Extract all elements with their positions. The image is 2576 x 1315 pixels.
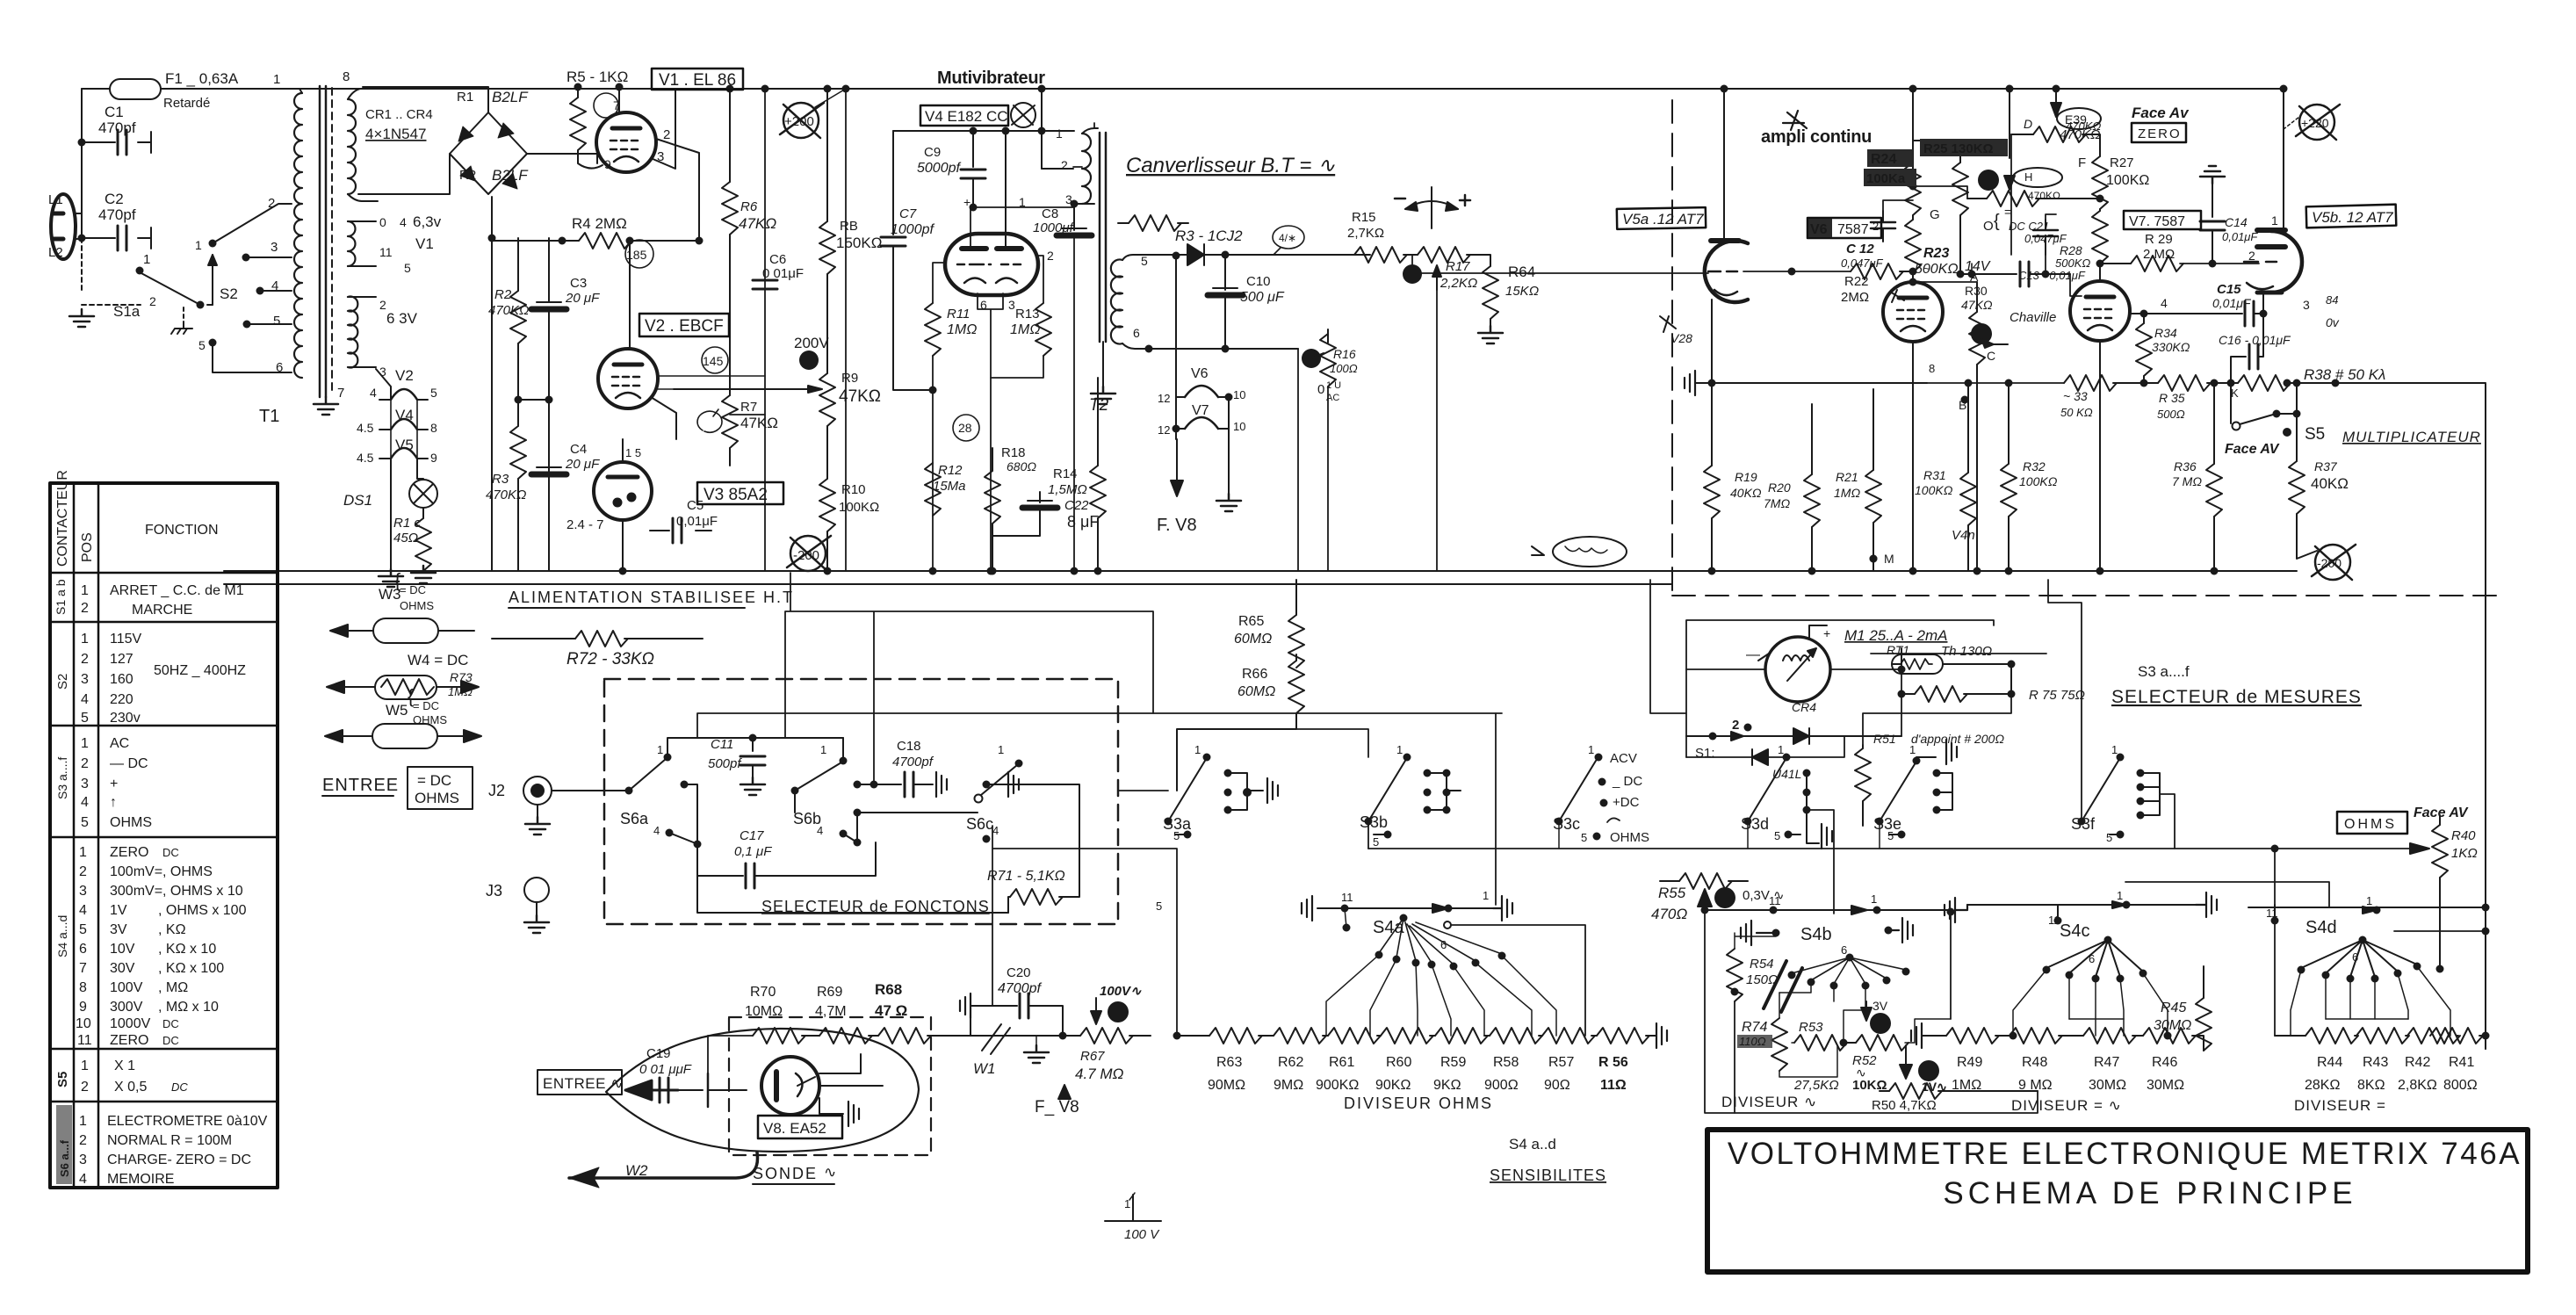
resistor R18 680 xyxy=(992,448,993,471)
svg-text:4: 4 xyxy=(370,386,377,400)
svg-text:15Ma: 15Ma xyxy=(933,479,966,494)
switch S1 contacts xyxy=(1744,724,1752,732)
svg-text:W2: W2 xyxy=(625,1162,648,1179)
svg-text:SENSIBILITES: SENSIBILITES xyxy=(1490,1167,1606,1184)
svg-text:R68: R68 xyxy=(875,981,902,998)
dashed box SELECTEUR de FONCTONS xyxy=(604,679,1118,924)
svg-text:ZERO: ZERO xyxy=(2138,126,2182,141)
svg-text:4: 4 xyxy=(81,692,89,707)
long wire top of selectors xyxy=(697,713,1502,738)
svg-text:1: 1 xyxy=(1124,1197,1130,1210)
svg-text:1KΩ: 1KΩ xyxy=(2451,846,2478,861)
svg-text:10MΩ: 10MΩ xyxy=(745,1004,783,1019)
svg-text:1: 1 xyxy=(2271,213,2278,228)
resistor R3 470K xyxy=(517,400,519,426)
svg-text:40KΩ: 40KΩ xyxy=(1730,486,1762,500)
svg-text:T1: T1 xyxy=(259,407,279,426)
svg-text:S3c: S3c xyxy=(1553,815,1580,833)
meter label M1 xyxy=(1871,653,2046,654)
svg-text:OHMS: OHMS xyxy=(110,815,152,830)
svg-text:MARCHE: MARCHE xyxy=(132,603,192,618)
ENTREE underline xyxy=(322,795,393,797)
svg-text:1000μf: 1000μf xyxy=(1033,220,1075,235)
ground under wire xyxy=(1035,1036,1037,1045)
svg-text:5: 5 xyxy=(404,261,411,275)
svg-text:R21: R21 xyxy=(1836,470,1858,484)
transformer T1 core xyxy=(320,86,326,397)
svg-text:1MΩ: 1MΩ xyxy=(947,322,977,337)
svg-text:V6: V6 xyxy=(1810,222,1828,237)
svg-text:0 01 μμF: 0 01 μμF xyxy=(639,1062,692,1077)
svg-text:3: 3 xyxy=(1008,298,1015,312)
svg-text:R63: R63 xyxy=(1216,1055,1242,1070)
box = DC OHMS xyxy=(408,767,473,809)
svg-text:FONCTION: FONCTION xyxy=(145,523,219,538)
svg-text:V2 . EBCF: V2 . EBCF xyxy=(645,317,724,336)
resistor R32 100K xyxy=(2008,383,2010,464)
svg-text:—: — xyxy=(1746,647,1760,662)
svg-text:R 56: R 56 xyxy=(1598,1055,1628,1070)
svg-text:=: = xyxy=(2004,205,2011,219)
resistor R24 (vertical) xyxy=(1912,141,1914,163)
svg-text:R4 2MΩ: R4 2MΩ xyxy=(572,215,627,232)
svg-text:R70: R70 xyxy=(750,985,776,1000)
svg-text:3: 3 xyxy=(2303,298,2310,312)
svg-text:R14: R14 xyxy=(1053,466,1078,481)
probe cathode ground xyxy=(819,1098,843,1114)
tube V5b 12AT7 (half, opening left) xyxy=(2271,231,2302,293)
svg-text:DIVISEUR OHMS: DIVISEUR OHMS xyxy=(1344,1095,1493,1112)
svg-text:SONDE: SONDE xyxy=(753,1165,818,1182)
svg-text:2: 2 xyxy=(79,864,87,879)
svg-text:R11: R11 xyxy=(947,307,970,322)
svg-text:R37: R37 xyxy=(2314,459,2338,473)
resistor R3-1CJ2 (ballast) xyxy=(1118,222,1129,224)
resistor R34 330K xyxy=(2143,314,2145,323)
tube V4 cathode wires down xyxy=(978,293,1003,571)
resistor R23 500K (below R24) xyxy=(1905,220,1921,272)
svg-text:R60: R60 xyxy=(1386,1055,1411,1070)
svg-text:OHMS: OHMS xyxy=(1610,830,1649,845)
svg-text:9: 9 xyxy=(79,1000,87,1015)
svg-text:1MΩ: 1MΩ xyxy=(448,685,473,698)
svg-text:4700pf: 4700pf xyxy=(892,755,934,769)
V8 EA52 box xyxy=(758,1116,842,1138)
switch S1a xyxy=(82,238,141,305)
arrow 100V~ xyxy=(1108,1001,1129,1022)
svg-text:R 29: R 29 xyxy=(2145,232,2173,247)
svg-text:100KΩ: 100KΩ xyxy=(1915,483,1953,497)
resistor R12 15M xyxy=(925,463,941,516)
svg-text:145: 145 xyxy=(703,354,724,368)
svg-text:R 35: R 35 xyxy=(2159,391,2185,405)
svg-text:= DC: = DC xyxy=(413,699,439,712)
wire right border vertical xyxy=(2485,384,2486,1049)
tube V6 7587 xyxy=(1883,282,1943,342)
DIVISEUR box outlines (wires) xyxy=(2123,1019,2125,1036)
svg-text:2: 2 xyxy=(268,196,275,211)
capacitor C18 4700pf xyxy=(857,784,901,785)
svg-text:5: 5 xyxy=(1774,829,1780,842)
transformer T2 core xyxy=(1100,133,1106,342)
svg-text:5: 5 xyxy=(81,711,89,726)
svg-text:470Ω: 470Ω xyxy=(1651,906,1687,922)
svg-text:4.7 MΩ: 4.7 MΩ xyxy=(1075,1066,1124,1082)
value labels region E3 (probe) xyxy=(543,965,1160,1242)
svg-text:6,3v: 6,3v xyxy=(413,213,442,230)
svg-text:Face AV: Face AV xyxy=(2414,806,2469,820)
wire row y436 resistors xyxy=(1927,382,2064,384)
svg-text:V3 85A2: V3 85A2 xyxy=(704,486,768,504)
resistor R75 xyxy=(1901,693,1915,695)
svg-text:OHMS: OHMS xyxy=(2344,817,2397,832)
probe body outline xyxy=(606,1029,919,1152)
capacitor C11 500pf xyxy=(752,738,754,751)
svg-text:, MΩ: , MΩ xyxy=(158,980,188,995)
svg-text:ARRET _ C.C. de M1: ARRET _ C.C. de M1 xyxy=(110,583,244,598)
svg-text:R 75 75Ω: R 75 75Ω xyxy=(2029,688,2085,703)
svg-text:1 5: 1 5 xyxy=(625,446,641,459)
F.V8 arrowhead xyxy=(1058,1085,1071,1099)
wire frame under S4b xyxy=(1834,986,1865,1043)
svg-text:S4b: S4b xyxy=(1800,925,1832,944)
value labels region D (straps, selector) xyxy=(322,569,1275,915)
svg-text:2: 2 xyxy=(81,756,89,771)
wire top bus drops xyxy=(1913,89,2056,176)
svg-text:S3f: S3f xyxy=(2071,815,2096,833)
svg-text:M: M xyxy=(1884,552,1894,566)
svg-text:Canverlisseur B.T = ∿: Canverlisseur B.T = ∿ xyxy=(1126,154,1335,177)
svg-text:11: 11 xyxy=(2266,907,2278,920)
table frame xyxy=(50,483,278,1188)
svg-text:900Ω: 900Ω xyxy=(1484,1078,1519,1093)
svg-text:20 μF: 20 μF xyxy=(565,457,600,472)
svg-text:5: 5 xyxy=(430,386,437,400)
resistor R67 xyxy=(1080,1028,1133,1044)
svg-text:_ DC: _ DC xyxy=(1612,774,1642,789)
svg-text:1V∿: 1V∿ xyxy=(1922,1080,1947,1094)
label box V4 E182CC xyxy=(920,105,1008,126)
resistor R28 500K xyxy=(2092,211,2108,264)
svg-text:W5: W5 xyxy=(386,702,408,719)
svg-text:C 12: C 12 xyxy=(1846,242,1874,256)
svg-text:11: 11 xyxy=(77,1033,92,1048)
svg-text:100Ka: 100Ka xyxy=(1866,171,1906,186)
capacitor C8 1000uf xyxy=(1073,204,1075,230)
E39 circled label xyxy=(2057,108,2101,129)
heater V6 V7 xyxy=(1176,256,1229,397)
svg-text:ELECTROMETRE 0à10V: ELECTROMETRE 0à10V xyxy=(107,1114,268,1129)
svg-text:6: 6 xyxy=(2089,952,2095,965)
transformer T2 secondary xyxy=(1111,260,1122,344)
capacitor C22 8uF xyxy=(1039,492,1041,502)
switch S6c xyxy=(975,795,983,803)
svg-text:S1 a b: S1 a b xyxy=(54,579,68,615)
svg-text:47KΩ: 47KΩ xyxy=(740,415,778,431)
R26 circled label xyxy=(2013,168,2062,187)
resistor R30 47K potentiometer xyxy=(1976,282,1978,312)
capacitor C12 0,047 xyxy=(1792,271,1851,272)
svg-text:9 MΩ: 9 MΩ xyxy=(2018,1078,2053,1093)
svg-text:330KΩ: 330KΩ xyxy=(2152,340,2190,354)
svg-text:S6a: S6a xyxy=(620,810,649,827)
wire V7 grid xyxy=(2070,274,2082,296)
resistor R6 47K xyxy=(729,89,731,182)
svg-text:4.5: 4.5 xyxy=(357,421,374,435)
svg-text:R3 - 1CJ2: R3 - 1CJ2 xyxy=(1175,228,1243,244)
wires meter loop xyxy=(1686,648,1901,736)
svg-text:3: 3 xyxy=(79,1152,87,1167)
label box V1.EL86 xyxy=(639,69,783,504)
dashed box probe xyxy=(729,1017,931,1155)
capacitor C3 20uF xyxy=(548,238,550,302)
resistor R31 100K xyxy=(1967,383,1969,473)
svg-text:0: 0 xyxy=(1317,382,1324,397)
transformer T2 primary xyxy=(1042,168,1073,170)
svg-text:R2: R2 xyxy=(459,168,476,183)
svg-text:2: 2 xyxy=(81,1080,89,1095)
capacitor C1 xyxy=(82,132,151,153)
svg-text:CONTACTEUR: CONTACTEUR xyxy=(55,470,70,567)
svg-text:C5: C5 xyxy=(687,498,704,513)
svg-text:1: 1 xyxy=(79,845,87,860)
tube V7 7587 xyxy=(2070,281,2130,341)
value labels region E1 (S3 row, meter) xyxy=(1360,626,2362,849)
W1 slashes xyxy=(971,1024,1080,1054)
svg-text:1MΩ: 1MΩ xyxy=(1834,486,1860,500)
svg-text:SELECTEUR de FONCTONS: SELECTEUR de FONCTONS xyxy=(761,898,990,915)
svg-text:12: 12 xyxy=(1158,392,1170,405)
svg-text:SELECTEUR de MESURES: SELECTEUR de MESURES xyxy=(2111,687,2362,707)
capacitor C6 0,01uF xyxy=(764,415,766,571)
svg-text:470KΩ: 470KΩ xyxy=(2060,127,2100,142)
svg-text:R40: R40 xyxy=(2451,828,2476,843)
svg-text:0: 0 xyxy=(379,215,386,229)
svg-text:10: 10 xyxy=(1233,388,1245,401)
svg-text:R57: R57 xyxy=(1548,1055,1574,1070)
wire V4 top row xyxy=(893,131,1074,246)
svg-text:50 KΩ: 50 KΩ xyxy=(2060,406,2093,419)
wire mains left vertical xyxy=(81,89,83,238)
svg-text:0,047μF: 0,047μF xyxy=(1841,256,1884,270)
svg-text:R18: R18 xyxy=(1001,445,1026,460)
svg-text:R23: R23 xyxy=(1923,246,1949,261)
resistor R15 2,7K xyxy=(1344,254,1354,256)
svg-text:11: 11 xyxy=(379,245,393,259)
svg-text:1: 1 xyxy=(2117,889,2123,902)
svg-text:30MΩ: 30MΩ xyxy=(2147,1078,2184,1093)
svg-text:2: 2 xyxy=(379,298,386,312)
svg-text:30V: 30V xyxy=(110,961,135,976)
SONDE underline xyxy=(753,1183,834,1185)
diode R3-1CJ2 rail xyxy=(1138,254,1370,256)
resistor R35 500 xyxy=(2158,375,2211,391)
switch S5 xyxy=(2230,383,2232,423)
svg-text:C: C xyxy=(1987,349,1995,363)
svg-text:150Ω: 150Ω xyxy=(1746,972,1778,987)
resistor R55 470 xyxy=(1660,880,1679,882)
svg-text:500KΩ: 500KΩ xyxy=(2055,256,2090,270)
svg-text:1: 1 xyxy=(273,72,280,87)
svg-text:300mV=, OHMS x 10: 300mV=, OHMS x 10 xyxy=(110,884,243,899)
svg-text:5: 5 xyxy=(198,338,206,352)
resistor R20 xyxy=(1811,404,1813,474)
wire verticals to lower section xyxy=(785,573,1153,784)
OHMS box xyxy=(2337,812,2407,834)
svg-text:, OHMS x 100: , OHMS x 100 xyxy=(158,903,247,918)
svg-text:S1:: S1: xyxy=(1695,746,1715,761)
svg-text:ALIMENTATION STABILISEE H.T: ALIMENTATION STABILISEE H.T xyxy=(509,589,794,606)
svg-text:S4d: S4d xyxy=(2305,918,2337,937)
svg-text:{: { xyxy=(408,685,414,707)
svg-text:100 V: 100 V xyxy=(1124,1227,1160,1242)
svg-text:0,01μF: 0,01μF xyxy=(2222,230,2258,243)
svg-text:6 3V: 6 3V xyxy=(386,310,418,327)
svg-text:6: 6 xyxy=(79,942,87,957)
svg-text:R25 130KΩ: R25 130KΩ xyxy=(1923,141,1994,156)
svg-text:DIVISEUR = ∿: DIVISEUR = ∿ xyxy=(2011,1097,2122,1114)
potentiometer R26 470K xyxy=(2004,176,2015,190)
capacitor C20 xyxy=(971,1005,1017,1007)
svg-text:C9: C9 xyxy=(924,145,941,160)
svg-text:9: 9 xyxy=(604,157,611,171)
tube label boxes xyxy=(1617,205,2396,238)
svg-text:CR1 .. CR4: CR1 .. CR4 xyxy=(365,107,433,122)
svg-text:8 μF: 8 μF xyxy=(1067,513,1099,531)
svg-text:R32: R32 xyxy=(2023,459,2046,473)
svg-text:B2LF: B2LF xyxy=(492,89,529,105)
svg-text:+220: +220 xyxy=(2301,116,2329,130)
svg-text:0,01μF: 0,01μF xyxy=(676,514,718,529)
svg-text:R22: R22 xyxy=(1844,274,1869,289)
resistor R54 150 xyxy=(1735,933,1776,949)
resistor R9 47K potentiometer xyxy=(826,274,828,373)
svg-text:7587: 7587 xyxy=(1837,222,1869,237)
bridge rectifier CR1-CR4 xyxy=(363,87,488,112)
potentiometer E39 470K (zero adj) xyxy=(2051,103,2061,117)
svg-text:R48: R48 xyxy=(2022,1055,2047,1070)
svg-text:1: 1 xyxy=(657,743,663,756)
transformer T1 6,3V winding V1 xyxy=(348,221,356,266)
svg-text:+: + xyxy=(963,195,971,209)
svg-text:V8. EA52: V8. EA52 xyxy=(763,1120,826,1137)
resistor R11 xyxy=(933,263,945,303)
resistor R64 15K xyxy=(1483,266,1498,319)
svg-text:47 Ω: 47 Ω xyxy=(875,1002,907,1019)
svg-text:{: { xyxy=(1994,212,2000,231)
svg-text:S3 a....f: S3 a....f xyxy=(55,757,69,799)
svg-text:NORMAL R = 100M: NORMAL R = 100M xyxy=(107,1133,232,1148)
svg-text:4: 4 xyxy=(817,824,823,837)
svg-text:C6: C6 xyxy=(769,252,786,267)
svg-text:, KΩ: , KΩ xyxy=(158,922,186,937)
svg-text:50HZ _ 400HZ: 50HZ _ 400HZ xyxy=(154,663,246,678)
svg-text:, KΩ x 10: , KΩ x 10 xyxy=(158,942,216,957)
switch S6b xyxy=(791,787,799,795)
svg-text:C3: C3 xyxy=(570,276,587,291)
svg-text:R61: R61 xyxy=(1329,1055,1354,1070)
svg-text:S1a: S1a xyxy=(113,303,141,320)
svg-text:1: 1 xyxy=(2111,743,2118,756)
wire lower bus 1 xyxy=(224,570,2297,572)
svg-text:SCHEMA DE PRINCIPE: SCHEMA DE PRINCIPE xyxy=(1943,1176,2356,1210)
svg-text:R65: R65 xyxy=(1238,614,1264,629)
svg-text:1000V: 1000V xyxy=(110,1016,151,1031)
svg-text:1: 1 xyxy=(143,252,150,267)
scribble near V6 grid xyxy=(1890,290,1904,302)
svg-text:R27: R27 xyxy=(2110,155,2134,170)
svg-text:500 μF: 500 μF xyxy=(1240,290,1285,305)
fuse F1 xyxy=(110,79,161,99)
resistor R13 1M xyxy=(1037,256,1043,303)
svg-text:DIVISEUR =: DIVISEUR = xyxy=(2294,1097,2386,1114)
svg-text:6: 6 xyxy=(1133,326,1140,340)
svg-text:= DC: = DC xyxy=(400,583,426,596)
svg-text:6: 6 xyxy=(980,298,987,312)
strap W5 capsule xyxy=(372,724,437,748)
svg-text:14V: 14V xyxy=(1965,259,1991,274)
svg-text:185: 185 xyxy=(626,248,647,262)
strap W3 capsule xyxy=(373,618,438,643)
circled 85 scribble xyxy=(697,409,722,432)
svg-text:90MΩ: 90MΩ xyxy=(1208,1078,1245,1093)
crossed circle -200 right xyxy=(2312,545,2356,580)
svg-text:RT1: RT1 xyxy=(1887,643,1909,657)
resistor R36 7M xyxy=(2213,383,2215,464)
svg-text:2: 2 xyxy=(2248,249,2255,263)
svg-text:1: 1 xyxy=(820,743,826,756)
svg-text:100V: 100V xyxy=(110,980,143,995)
svg-text:R2: R2 xyxy=(494,287,512,302)
vertical rails R2 C3 C4 R3 xyxy=(491,197,493,571)
svg-text:V7: V7 xyxy=(1192,403,1209,418)
resistor R51 xyxy=(1862,694,1864,745)
switch S3e xyxy=(1876,818,1884,826)
svg-text:0,1 μF: 0,1 μF xyxy=(734,844,772,859)
svg-text:30MΩ: 30MΩ xyxy=(2089,1078,2126,1093)
inverse labels R24 R25 xyxy=(1864,139,2008,186)
meter M1 xyxy=(1765,637,1830,702)
svg-text:470KΩ: 470KΩ xyxy=(2028,190,2060,202)
svg-text:1: 1 xyxy=(1056,126,1063,141)
resistor R1C 45 ohm xyxy=(422,508,424,518)
wire V7 cathode down xyxy=(2099,341,2101,571)
strap W4 capsule with R73 xyxy=(375,676,437,699)
svg-text:V4 E182 CC: V4 E182 CC xyxy=(925,108,1008,125)
tube V3 85A2 xyxy=(594,462,652,520)
svg-text:C11: C11 xyxy=(711,737,733,752)
svg-text:47KΩ: 47KΩ xyxy=(1961,298,1993,312)
svg-text:+: + xyxy=(110,777,118,791)
svg-text:C4: C4 xyxy=(570,442,587,457)
svg-text:AC: AC xyxy=(1326,393,1339,403)
capacitor C2 xyxy=(82,228,151,249)
svg-text:R46: R46 xyxy=(2152,1055,2177,1070)
svg-text:1: 1 xyxy=(2366,894,2372,907)
svg-text:MEMOIRE: MEMOIRE xyxy=(107,1172,174,1187)
circled scribble marks xyxy=(625,240,653,268)
svg-text:2 MΩ: 2 MΩ xyxy=(2143,247,2175,262)
svg-text:R49: R49 xyxy=(1957,1055,1982,1070)
svg-text:F_ V8: F_ V8 xyxy=(1035,1098,1079,1116)
switch S3b xyxy=(1365,818,1373,826)
svg-text:S5: S5 xyxy=(55,1072,70,1087)
svg-text:V1 . EL 86: V1 . EL 86 xyxy=(659,71,736,90)
resistor R2 470K xyxy=(517,238,519,291)
inductor L1 L2 xyxy=(51,194,76,259)
svg-text:W1: W1 xyxy=(973,1060,996,1077)
svg-text:V28: V28 xyxy=(1670,331,1692,345)
